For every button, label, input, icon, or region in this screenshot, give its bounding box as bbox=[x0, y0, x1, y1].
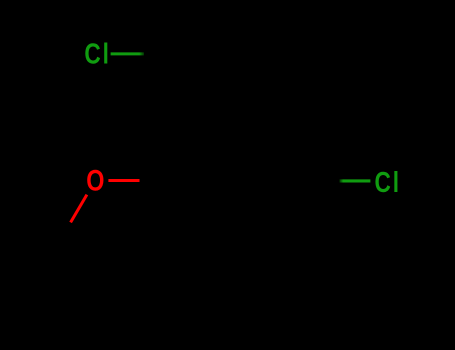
benzene ring inner double bonds bbox=[185, 131, 295, 231]
atom label O (ethoxy oxygen) bbox=[86, 164, 104, 197]
benzene ring C1-C2 bond (black on black) bbox=[170, 121, 205, 181]
svg-text:O: O bbox=[86, 164, 104, 197]
bond O-CH2 (red half-bond from O toward ethyl CH2, diagonal) bbox=[71, 195, 87, 223]
benzene ring C2-C3 bond bbox=[205, 119, 274, 122]
bond C4-Cl (right, green half-bond toward ring) bbox=[340, 179, 371, 182]
bond O-CH2 black half (ethyl CH2) bbox=[63, 222, 71, 236]
svg-text:Cl: Cl bbox=[375, 165, 402, 198]
svg-text:Cl: Cl bbox=[84, 37, 111, 70]
bond C4-Cl black half (toward ring) bbox=[309, 179, 340, 182]
bond C-Cl (top, green half-bond from Cl toward CH2) bbox=[111, 52, 144, 55]
bond O-C1 (red half-bond from O toward ring) bbox=[108, 179, 139, 182]
benzene ring C6-C1 bond bbox=[170, 181, 205, 241]
bond C2-CH2 (to chloromethyl carbon) bbox=[168, 54, 205, 121]
benzene ring C4-C5 bond bbox=[274, 181, 309, 241]
atom label Cl (chloromethyl chlorine, top left) bbox=[84, 37, 111, 70]
atom label Cl (ring chlorine, right) bbox=[375, 165, 402, 198]
benzene ring C3-C4 bond bbox=[274, 121, 309, 181]
bond C1-O black half (toward ring) bbox=[140, 179, 171, 182]
bond CH2-CH3 (ethyl) bbox=[61, 236, 64, 294]
bond CH2-Cl black half (toward CH2) bbox=[144, 52, 168, 55]
benzene ring C5-C6 bond bbox=[205, 239, 274, 242]
